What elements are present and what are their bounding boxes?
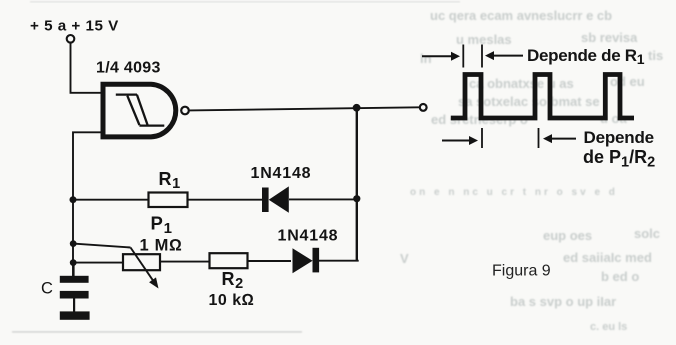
svg-text:1/4 4093: 1/4 4093 (96, 59, 161, 76)
svg-text:on e n nc u cr t nr o sv e d: on e n nc u cr t nr o sv e d (410, 187, 618, 198)
svg-text:de P1/R2: de P1/R2 (583, 147, 655, 171)
svg-text:Depende de R1: Depende de R1 (527, 46, 645, 67)
arrow left-bottom (442, 140, 470, 142)
resistor R2 (210, 253, 248, 268)
svg-text:eup oes: eup oes (543, 228, 592, 243)
right rail wire (356, 108, 358, 261)
output terminal (420, 104, 427, 111)
svg-text:ln: ln (420, 51, 432, 66)
wire D1 to right rail (289, 198, 358, 200)
svg-text:10 kΩ: 10 kΩ (209, 292, 255, 309)
arrow right-top (492, 55, 523, 57)
resistor R1 (149, 193, 188, 208)
svg-text:1N4148: 1N4148 (251, 165, 312, 182)
bleed-through text from reverse page (decorative) (400, 8, 663, 333)
svg-text:sb revisa: sb revisa (581, 30, 638, 45)
ground (60, 311, 90, 319)
svg-text:tis: tis (648, 48, 663, 63)
schmitt hysteresis symbol (116, 95, 165, 126)
svg-text:ba s svp o up iIar: ba s svp o up iIar (510, 294, 616, 309)
svg-text:V: V (400, 251, 409, 266)
node: left rail row1 (70, 196, 77, 203)
svg-text:u meslas: u meslas (456, 32, 512, 47)
svg-text:b ed o: b ed o (601, 269, 639, 284)
svg-text:solc: solc (634, 226, 660, 241)
svg-text:Figura 9: Figura 9 (492, 263, 551, 280)
power terminal (67, 35, 75, 43)
output bubble (181, 107, 189, 115)
svg-text:1 MΩ: 1 MΩ (140, 237, 183, 255)
svg-text:c. eu ls: c. eu ls (590, 321, 627, 333)
svg-text:Depende: Depende (584, 128, 654, 147)
wire gate bottom input to left rail (73, 132, 101, 276)
arrow right-bottom (550, 138, 576, 140)
wire power to gate top input (71, 43, 102, 93)
svg-text:ed saiiaIc med: ed saiiaIc med (563, 250, 652, 265)
wire R1 to diode D1 (188, 199, 263, 201)
node: right rail row1 (353, 195, 360, 202)
svg-text:C: C (41, 280, 53, 298)
nand gate U1 body (103, 84, 176, 137)
period ticks (482, 128, 539, 148)
wire to pot wiper arm (73, 244, 130, 248)
node: junction on output wire (353, 104, 361, 112)
svg-text:+ 5 a + 15 V: + 5 a + 15 V (30, 18, 119, 35)
pulse width ticks (463, 45, 482, 68)
square wave trace (451, 75, 634, 119)
node: left rail pot-arrow (70, 240, 77, 247)
output wire to terminal (189, 107, 419, 110)
arrow left-top (422, 55, 452, 57)
waveform diagram (422, 45, 655, 171)
svg-text:1N4148: 1N4148 (278, 227, 339, 244)
wire D2 to right rail (319, 260, 359, 262)
wire row1 left (73, 199, 149, 201)
svg-text:uc qera ecam avneslucrr e cb: uc qera ecam avneslucrr e cb (430, 8, 612, 23)
wire pot to R2 (160, 261, 210, 263)
wire R2 to diode D2 (248, 260, 292, 262)
wire row2 left to pot (73, 262, 123, 264)
node: left rail row2 (70, 259, 77, 266)
svg-text:ca obnatxse u as: ca obnatxse u as (469, 76, 574, 91)
